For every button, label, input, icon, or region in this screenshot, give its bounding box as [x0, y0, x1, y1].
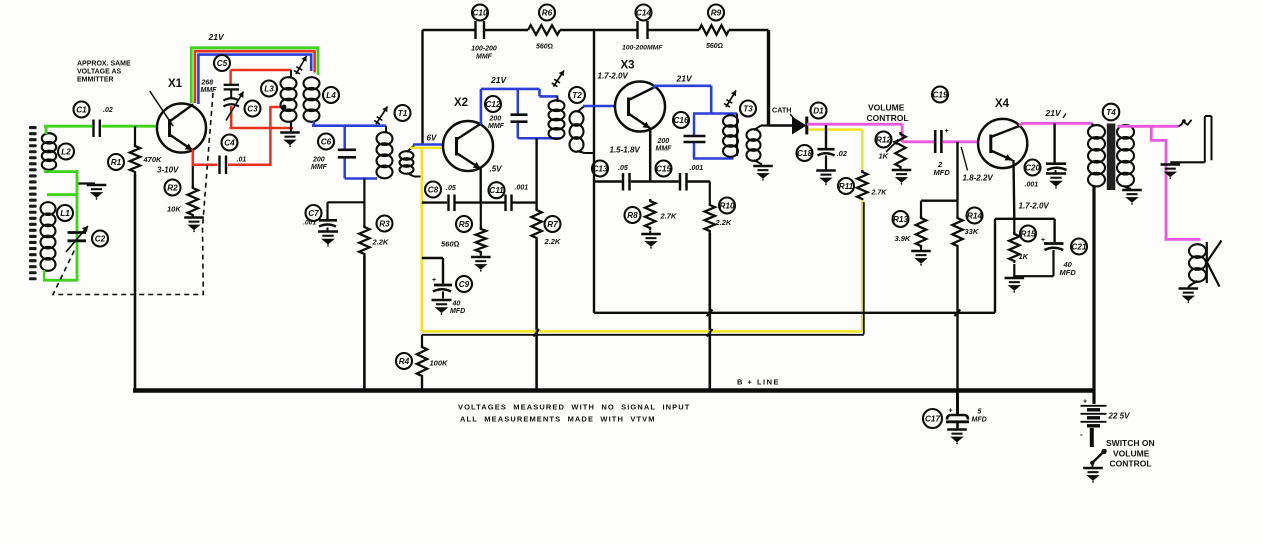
- svg-text:.01: .01: [237, 157, 247, 164]
- transformer T1 primary: [377, 105, 411, 178]
- resistor R14 33K: [952, 201, 982, 248]
- text: 21V at X4: [1045, 108, 1067, 118]
- resistor R1 470K: [108, 126, 162, 174]
- ground below C20: [1046, 170, 1066, 189]
- tuning arrow above T1: [374, 107, 387, 125]
- transformer T3 secondary: [747, 126, 770, 165]
- diode D1: [792, 103, 827, 135]
- wire: L2 top to C1 (green): [44, 126, 92, 134]
- svg-text:100-200MMF: 100-200MMF: [622, 45, 663, 52]
- svg-text:T2: T2: [572, 91, 582, 100]
- resistor R11 2.7K: [838, 170, 887, 201]
- svg-text:R6: R6: [542, 9, 553, 18]
- capacitor C5 268 MMF: [201, 55, 240, 94]
- resistor R9 560: [699, 5, 729, 51]
- svg-text:C14: C14: [636, 9, 651, 18]
- wire: C1 to X1 base (green): [102, 125, 159, 128]
- svg-text:T4: T4: [1106, 108, 1116, 117]
- svg-text:C10: C10: [472, 9, 487, 18]
- svg-text:C5: C5: [217, 59, 228, 68]
- capacitor C4 .01: [220, 135, 247, 175]
- capacitor C17 5 MFD: [923, 391, 987, 429]
- svg-text:VOLUME: VOLUME: [1113, 449, 1150, 459]
- transistor X4: [978, 98, 1027, 168]
- capacitor C19 2 MFD: [932, 87, 950, 178]
- svg-text:R15: R15: [1020, 230, 1035, 239]
- svg-text:33K: 33K: [965, 227, 979, 236]
- svg-text:100-200: 100-200: [471, 46, 497, 53]
- tuning arrow above T3: [724, 91, 736, 108]
- coil L2: [42, 133, 74, 170]
- wire: emitter return to bus: [994, 219, 996, 313]
- text: .5V: [490, 165, 503, 174]
- capacitor C13 .05: [592, 161, 630, 191]
- capacitor C6 200 MMF: [311, 126, 356, 179]
- svg-text:SWITCH ON: SWITCH ON: [1106, 438, 1155, 448]
- svg-text:B + LINE: B + LINE: [737, 378, 780, 387]
- text: 1.8-2.2V: [961, 147, 993, 183]
- capacitor C20 .001: [1025, 123, 1067, 188]
- svg-text:C13: C13: [592, 165, 607, 174]
- capacitor C9 40 MFD: [422, 258, 472, 315]
- svg-text:.001: .001: [515, 185, 529, 192]
- svg-text:MFD: MFD: [1060, 268, 1077, 277]
- wire: B plus line: [133, 378, 1094, 391]
- dashed gang tuning link: [53, 93, 213, 295]
- ground below T4 secondary: [1122, 190, 1142, 205]
- svg-text:C7: C7: [308, 209, 319, 218]
- svg-text:3-10V: 3-10V: [157, 166, 179, 175]
- svg-text:2.7K: 2.7K: [660, 212, 677, 221]
- wire: neutralizing top rail: [423, 29, 769, 32]
- svg-text:21V: 21V: [208, 32, 225, 42]
- text: volume control: [867, 103, 909, 124]
- transformer T3 primary: [723, 101, 756, 157]
- capacitor C10 100-200 MMF: [471, 5, 497, 61]
- wire: AGC bus (yellow): [422, 200, 863, 331]
- wire: rail mid drop to X3 base / C13: [593, 30, 595, 313]
- wire: jog R7 over AGC bus: [534, 329, 540, 337]
- svg-text:R11: R11: [839, 182, 854, 191]
- wire: rail right drop to detector: [767, 30, 770, 126]
- text: switch on volume control: [1106, 438, 1155, 469]
- svg-text:C19: C19: [932, 91, 947, 100]
- wire: C19 to X4 base (magenta): [943, 140, 980, 143]
- svg-text:X4: X4: [995, 98, 1010, 110]
- ground at L2/L1 junction: [77, 184, 106, 200]
- capacitor C7 .001: [303, 202, 364, 226]
- resistor R8 2.7K: [625, 199, 677, 230]
- transistor X1: [157, 78, 206, 153]
- resistor R10 2.2K: [705, 182, 735, 234]
- svg-text:MMF: MMF: [201, 87, 218, 94]
- svg-text:R2: R2: [167, 184, 178, 193]
- battery 22.5V: [1081, 391, 1131, 426]
- text: 21V at X3: [676, 74, 693, 84]
- text: CATH: [772, 106, 794, 119]
- ground below earphone: [1179, 289, 1199, 304]
- svg-text:R5: R5: [459, 220, 470, 229]
- text: measurement note: [458, 403, 690, 424]
- svg-text:200: 200: [312, 157, 325, 164]
- svg-text:.001: .001: [1025, 182, 1039, 189]
- svg-text:MMF: MMF: [656, 146, 673, 153]
- svg-text:40: 40: [452, 301, 461, 308]
- svg-text:1.7-2.0V: 1.7-2.0V: [1019, 202, 1050, 211]
- ground below R15: [1005, 264, 1025, 293]
- wire: L4 bottom to T1 (blue): [312, 121, 386, 126]
- wire: base bias drop: [921, 142, 958, 201]
- wire: collector bundle (red): [195, 51, 315, 103]
- svg-text:100K: 100K: [430, 359, 449, 368]
- wire: R3 to B+ line: [363, 256, 366, 391]
- svg-text:C4: C4: [224, 139, 235, 148]
- transistor X2: [443, 97, 493, 171]
- svg-text:+: +: [432, 277, 436, 284]
- wire: C12 bottom to T2 primary bottom (blue): [518, 137, 561, 140]
- capacitor C12 200 MMF: [485, 89, 528, 138]
- coil L4: [304, 77, 340, 122]
- svg-text:2.2K: 2.2K: [715, 218, 732, 227]
- transformer T1 secondary: [400, 146, 422, 177]
- svg-text:560Ω: 560Ω: [441, 240, 460, 249]
- svg-text:CONTROL: CONTROL: [1110, 459, 1152, 469]
- wire: emitter line X3: [594, 128, 710, 182]
- wire: X2 collector (blue): [481, 89, 558, 125]
- wire: C4 to tank tap (red): [228, 105, 286, 166]
- wire: T4 secondary out (magenta): [1118, 125, 1179, 128]
- wire: detector output (magenta): [807, 123, 902, 126]
- wire: return bus: [594, 312, 995, 314]
- svg-text:MFD: MFD: [972, 417, 987, 424]
- capacitor C1 .02: [74, 102, 113, 138]
- svg-text:X2: X2: [454, 97, 468, 109]
- wire: rail left drop to X2 base: [421, 30, 423, 144]
- svg-text:R14: R14: [967, 212, 982, 221]
- wire: emitter line X4: [995, 160, 1055, 219]
- text: approx same voltage note: [77, 61, 173, 127]
- wire: C16 box bottom (blue): [693, 157, 734, 160]
- coil L3: [261, 70, 297, 122]
- svg-text:CATH: CATH: [772, 106, 791, 115]
- wire: X4 collector (magenta): [1019, 123, 1092, 126]
- ground below C7: [318, 228, 338, 247]
- ground below R13: [911, 248, 931, 266]
- capacitor C2 (variable): [66, 226, 108, 252]
- svg-text:VOLUME: VOLUME: [868, 103, 905, 113]
- wire: tank top (red): [231, 70, 292, 85]
- svg-text:R3: R3: [379, 220, 390, 229]
- svg-text:470K: 470K: [143, 155, 163, 164]
- svg-text:R8: R8: [627, 211, 638, 220]
- svg-text:10K: 10K: [167, 205, 181, 214]
- wire: R10 to B+ line: [708, 233, 711, 391]
- ground below C9: [432, 300, 452, 315]
- svg-text:.05: .05: [446, 185, 456, 192]
- svg-text:T1: T1: [398, 109, 408, 118]
- svg-text:C2: C2: [95, 235, 106, 244]
- transformer T2 primary: [549, 87, 586, 139]
- transformer T4 core: [1107, 124, 1116, 191]
- svg-text:.05: .05: [618, 165, 628, 172]
- svg-text:L4: L4: [326, 91, 336, 100]
- wire: jog R10 over return bus: [707, 310, 713, 317]
- svg-text:T3: T3: [743, 105, 753, 114]
- switch on volume control: [1080, 428, 1107, 468]
- transformer T4 secondary: [1117, 125, 1134, 189]
- svg-text:C18: C18: [797, 149, 812, 158]
- svg-text:MMF: MMF: [476, 54, 493, 61]
- svg-text:200: 200: [489, 116, 502, 123]
- svg-text:.02: .02: [837, 149, 848, 158]
- ground below jack: [1161, 165, 1181, 180]
- svg-text:R12: R12: [876, 136, 891, 145]
- wire: detector node: [769, 124, 793, 127]
- wire: T1 secondary to X2 base (blue): [413, 143, 444, 146]
- coil L1: [41, 202, 74, 271]
- svg-text:1.8-2.2V: 1.8-2.2V: [963, 174, 994, 183]
- text: 1.5-1.8V: [610, 146, 641, 155]
- svg-text:C21: C21: [1071, 243, 1086, 252]
- wire: collector bundle (green): [191, 48, 318, 103]
- resistor R5 560: [441, 203, 486, 254]
- text: 21V at X2: [490, 75, 507, 85]
- svg-text:C11: C11: [489, 186, 504, 195]
- svg-text:21V: 21V: [1045, 108, 1062, 118]
- svg-text:R1: R1: [111, 158, 122, 167]
- svg-text:C3: C3: [247, 105, 258, 114]
- wire: R14 to B+ and C17: [956, 248, 958, 414]
- wire: T4 primary to B+ line: [1092, 186, 1095, 391]
- svg-text:L2: L2: [61, 148, 71, 157]
- earphone coil: [1188, 241, 1221, 288]
- svg-text:1K: 1K: [1019, 252, 1029, 261]
- svg-text:.001: .001: [303, 220, 316, 227]
- svg-text:.001: .001: [690, 165, 704, 172]
- text: 1.7-2.0V: [1019, 202, 1050, 211]
- svg-text:2.2K: 2.2K: [544, 237, 561, 246]
- wire: R7 to B+ line: [535, 240, 538, 391]
- wire: tuning line (green): [43, 170, 78, 280]
- svg-text:MMF: MMF: [488, 123, 505, 130]
- svg-text:1.7-2.0V: 1.7-2.0V: [598, 72, 629, 81]
- svg-text:+: +: [1083, 399, 1087, 406]
- wire: R4 to B+ line: [421, 378, 423, 391]
- wire: C11 to R7: [513, 201, 537, 203]
- ground below switch: [1083, 468, 1103, 483]
- svg-text:2.7K: 2.7K: [871, 190, 888, 197]
- wire: emitter feedback (red): [192, 150, 218, 165]
- ground below R12: [892, 167, 912, 185]
- svg-text:21V: 21V: [490, 75, 507, 85]
- potentiometer R12 1K: [876, 132, 906, 170]
- resistor R15 1K: [1009, 219, 1036, 263]
- capacitor C18 .02: [797, 125, 848, 170]
- wire: AGC bus (black): [422, 202, 864, 335]
- svg-text:C15: C15: [656, 165, 671, 174]
- svg-text:C9: C9: [459, 280, 470, 289]
- earphone jack: [1170, 116, 1211, 162]
- capacitor C3 (variable): [224, 89, 261, 128]
- capacitor C16 200 MMF: [656, 112, 706, 159]
- ground below C18: [816, 171, 836, 186]
- svg-text:ALL MEASUREMENTS MADE WITH: ALL MEASUREMENTS MADE WITH VTVM: [460, 415, 656, 424]
- resistor R7 2.2K: [531, 138, 561, 246]
- svg-text:L3: L3: [264, 85, 274, 94]
- wire: detector to pot (magenta): [902, 124, 934, 142]
- svg-text:21V: 21V: [676, 74, 693, 84]
- svg-text:X3: X3: [621, 60, 635, 72]
- capacitor C15 .001: [656, 161, 704, 191]
- wire: C16 box top (blue): [693, 112, 737, 115]
- svg-text:MFD: MFD: [934, 168, 951, 177]
- wire: L2 bottom link (green): [44, 170, 77, 173]
- svg-text:R7: R7: [547, 220, 558, 229]
- svg-text:.02: .02: [103, 107, 113, 114]
- svg-text:22 5V: 22 5V: [1108, 412, 1131, 421]
- svg-text:MMF: MMF: [311, 164, 328, 171]
- svg-text:CONTROL: CONTROL: [867, 113, 909, 123]
- svg-text:1K: 1K: [879, 152, 889, 161]
- svg-text:6V: 6V: [427, 134, 437, 143]
- svg-text:+: +: [949, 408, 953, 415]
- svg-text:X1: X1: [168, 78, 183, 90]
- ground below C17: [947, 430, 967, 445]
- tuning arrow above T2: [552, 71, 564, 87]
- svg-text:268: 268: [201, 80, 214, 87]
- svg-text:C16: C16: [673, 116, 688, 125]
- transistor X3: [615, 60, 665, 132]
- svg-text:VOLTAGE AS: VOLTAGE AS: [77, 69, 122, 76]
- text: 6V: [427, 134, 437, 143]
- svg-text:200: 200: [657, 138, 670, 145]
- svg-text:+: +: [945, 126, 950, 135]
- resistor R6 560: [528, 5, 560, 51]
- svg-text:C1: C1: [76, 106, 87, 115]
- svg-text:D1: D1: [813, 107, 824, 116]
- svg-text:APPROX. SAME: APPROX. SAME: [77, 61, 131, 68]
- svg-text:-: -: [1080, 430, 1083, 439]
- svg-text:C8: C8: [428, 186, 439, 195]
- svg-text:+: +: [1041, 237, 1045, 244]
- antenna ferrite rod: [29, 126, 37, 280]
- wire: T2 secondary to X3 base (blue): [583, 105, 616, 108]
- svg-text:.5V: .5V: [490, 165, 503, 174]
- svg-text:C20: C20: [1025, 164, 1040, 173]
- resistor R2 10K: [157, 165, 198, 217]
- resistor R13 3.9K: [893, 201, 927, 248]
- transformer T2 secondary: [570, 106, 595, 153]
- resistor R3 2.2K: [359, 179, 392, 257]
- wire: jog R10 over AGC bus: [707, 329, 713, 337]
- wire: AGC into base (yellow): [410, 147, 442, 149]
- svg-text:L1: L1: [60, 209, 70, 218]
- ground below R8: [641, 231, 661, 249]
- resistor R4 100K: [396, 335, 448, 378]
- svg-text:R4: R4: [399, 357, 410, 366]
- capacitor C11 .001: [489, 182, 529, 211]
- svg-text:560Ω: 560Ω: [536, 44, 553, 51]
- ground below R2: [184, 218, 204, 233]
- wire: emitter line X2: [456, 168, 505, 203]
- wire: C6 to T1 primary bottom (blue): [345, 177, 377, 180]
- svg-text:2.2K: 2.2K: [372, 238, 389, 247]
- svg-text:C17: C17: [925, 415, 940, 424]
- capacitor C8 .05: [422, 182, 456, 212]
- svg-text:VOLTAGES MEASURED WITH NO: VOLTAGES MEASURED WITH NO SIGNAL INPUT: [458, 403, 690, 412]
- svg-text:C12: C12: [485, 100, 500, 109]
- svg-text:EMMITTER: EMMITTER: [77, 77, 114, 84]
- svg-text:MFD: MFD: [450, 308, 465, 315]
- wire: tank bottom (red): [230, 127, 294, 130]
- svg-text:C6: C6: [321, 138, 332, 147]
- text: 21V at X1: [208, 32, 225, 42]
- wire: earphone branch (magenta): [1151, 126, 1200, 239]
- wire: R1 to B+ line: [134, 174, 137, 391]
- text: 1.7-2.0V: [598, 72, 629, 81]
- ground below T3 secondary: [753, 166, 773, 181]
- capacitor C21 40 MFD: [1014, 219, 1087, 277]
- ground below L3: [280, 121, 300, 147]
- svg-text:5: 5: [978, 409, 982, 416]
- transformer T4 primary: [1088, 104, 1119, 187]
- wire: AGC drop (yellow): [420, 148, 423, 332]
- svg-text:R9: R9: [711, 9, 722, 18]
- wire: jog R14 over return bus: [955, 310, 961, 317]
- svg-text:560Ω: 560Ω: [706, 43, 723, 50]
- wire: AGC takeoff (yellow): [809, 130, 863, 171]
- svg-text:R13: R13: [893, 215, 908, 224]
- capacitor C14 100-200MMF: [622, 5, 663, 52]
- wire: collector bundle (blue): [198, 55, 311, 104]
- ground below R5: [471, 254, 491, 272]
- tuning arrow above L3: [294, 56, 307, 74]
- svg-text:3.9K: 3.9K: [895, 234, 911, 243]
- svg-text:R10: R10: [719, 202, 734, 211]
- wire: X3 collector (blue): [653, 86, 711, 115]
- svg-text:1.5-1.8V: 1.5-1.8V: [610, 146, 641, 155]
